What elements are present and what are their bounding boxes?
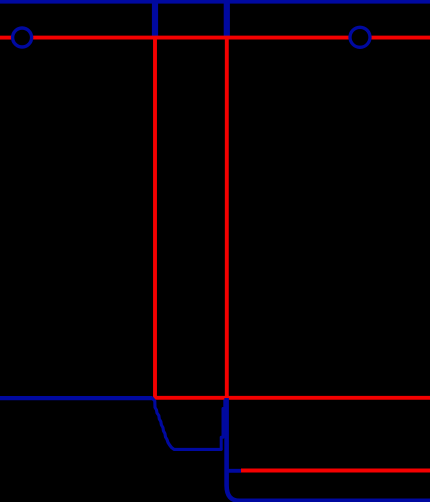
wire red lower-right rail [241, 469, 430, 473]
wire top blue bus bar [0, 0, 430, 4]
wire blue freehand riser back to node B [221, 400, 225, 449]
node terminal circle right [350, 27, 370, 47]
wire blue freehand dip: down-slope and lower horizontal [152, 398, 221, 449]
wire blue stub from bus to node B [224, 0, 230, 39]
wire red top rail left segment [0, 36, 12, 40]
wire red top rail right segment [371, 36, 430, 40]
wire blue main vertical with rounded corner to bottom rail [227, 398, 430, 501]
wire red vertical 2 [225, 38, 229, 398]
wire blue stub from bus to node A [152, 0, 158, 39]
wire red vertical 1 with corner to bottom rail [155, 38, 430, 398]
wire blue left horizontal [0, 396, 152, 400]
node terminal circle left [13, 28, 32, 47]
wire red top rail middle segment [32, 36, 348, 40]
wire blue stub to red lower-right rail [227, 469, 241, 473]
